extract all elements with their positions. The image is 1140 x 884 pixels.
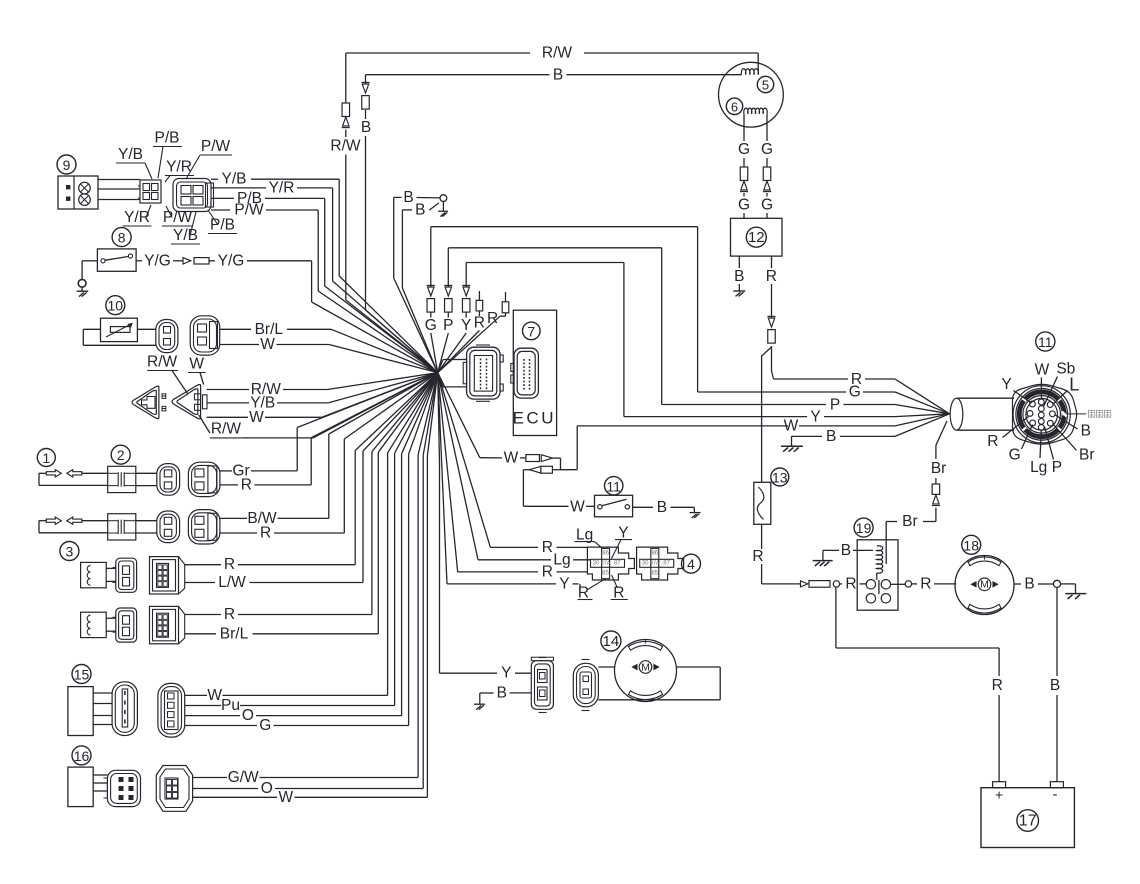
svg-text:Y/R: Y/R [269,179,295,196]
svg-text:G: G [259,717,271,734]
svg-text:W: W [249,409,264,426]
svg-text:15: 15 [74,667,90,683]
svg-text:10: 10 [108,298,124,314]
svg-text:11: 11 [1038,334,1053,350]
svg-text:G/W: G/W [228,769,259,786]
svg-text:Y/B: Y/B [118,146,143,163]
svg-text:O: O [261,780,273,797]
svg-text:Br/L: Br/L [220,625,249,642]
svg-text:Y: Y [1001,376,1011,393]
svg-text:87: 87 [663,560,670,566]
svg-text:8: 8 [118,230,126,246]
svg-text:6: 6 [731,99,738,114]
svg-text:+: + [995,787,1003,803]
svg-text:R: R [766,268,777,285]
svg-text:Y: Y [559,575,569,592]
svg-text:P/B: P/B [155,130,180,147]
svg-text:B: B [553,67,563,84]
svg-text:M: M [641,661,650,673]
svg-text:R: R [542,563,553,580]
svg-text:Y/B: Y/B [222,171,247,188]
svg-text:R/W: R/W [147,353,178,370]
svg-text:16: 16 [74,748,90,764]
svg-text:Y/G: Y/G [218,252,245,269]
svg-text:W: W [570,498,585,515]
svg-text:W: W [504,449,519,466]
svg-text:W: W [784,418,799,435]
svg-text:85: 85 [602,570,609,576]
svg-text:P: P [1052,459,1062,476]
svg-text:G: G [1009,446,1021,463]
svg-text:B: B [1024,576,1034,593]
svg-text:B: B [361,119,371,136]
svg-text:Lg: Lg [576,526,593,543]
svg-text:L/W: L/W [218,574,246,591]
svg-text:86: 86 [602,550,609,556]
svg-text:G: G [761,141,773,158]
svg-text:30: 30 [642,560,649,566]
svg-text:1: 1 [42,450,50,466]
svg-text:R/W: R/W [330,138,361,155]
svg-text:P: P [443,317,453,334]
svg-text:Lg: Lg [1030,459,1047,476]
svg-text:Lg: Lg [553,551,570,568]
svg-text:R: R [260,525,271,542]
svg-text:2: 2 [117,447,125,463]
svg-text:R: R [845,575,856,592]
svg-text:85: 85 [651,570,658,576]
svg-text:R: R [474,314,485,331]
svg-text:Br: Br [1079,446,1095,463]
svg-text:G: G [761,197,773,214]
svg-text:R/W: R/W [211,421,242,438]
svg-text:87: 87 [614,560,621,566]
svg-text:18: 18 [963,537,979,553]
svg-text:Y: Y [810,408,820,425]
svg-text:3: 3 [66,544,74,560]
svg-text:Pu: Pu [221,697,240,714]
svg-text:P/W: P/W [201,138,231,155]
svg-text:9: 9 [63,157,71,173]
svg-text:G: G [738,141,750,158]
svg-text:B: B [497,684,507,701]
svg-text:R: R [578,584,589,601]
svg-text:B: B [734,268,744,285]
svg-text:Y: Y [501,665,511,682]
svg-text:14: 14 [603,633,620,650]
svg-text:P/W: P/W [234,202,264,219]
svg-text:11: 11 [606,478,621,494]
svg-text:R: R [613,584,624,601]
svg-text:B: B [657,499,667,516]
svg-text:R: R [224,556,235,573]
svg-text:R: R [487,310,498,327]
svg-text:R: R [920,575,931,592]
svg-text:B: B [415,202,425,219]
svg-text:W: W [260,336,275,353]
svg-text:Y/R: Y/R [166,159,192,176]
svg-text:G: G [738,197,750,214]
svg-text:B: B [1081,422,1091,439]
svg-text:G: G [849,384,861,401]
svg-text:-: - [1053,786,1058,803]
svg-text:87A: 87A [650,560,660,566]
svg-text:L: L [1069,375,1079,395]
svg-text:B: B [826,428,836,445]
svg-text:ECU: ECU [513,409,556,428]
svg-text:W: W [278,789,293,806]
svg-text:Br: Br [902,513,918,530]
svg-text:M: M [980,579,989,591]
svg-text:R: R [752,548,763,565]
svg-text:Br: Br [931,460,947,477]
svg-text:R: R [542,539,553,556]
svg-text:R/W: R/W [542,45,573,62]
svg-text:12: 12 [748,229,765,246]
svg-text:30: 30 [593,560,600,566]
svg-text:19: 19 [856,520,872,536]
svg-text:4: 4 [687,556,695,572]
svg-text:R: R [987,433,998,450]
svg-text:Y/B: Y/B [173,227,198,244]
svg-text:5: 5 [762,78,769,93]
svg-text:P/W: P/W [163,209,193,226]
svg-text:R: R [992,677,1003,694]
svg-text:B: B [1050,677,1060,694]
svg-text:Y: Y [461,317,471,334]
svg-text:17: 17 [1019,813,1037,830]
svg-text:Y/G: Y/G [144,252,171,269]
svg-text:O: O [242,707,254,724]
svg-text:R: R [241,476,252,493]
svg-text:B: B [403,189,413,206]
svg-text:87A: 87A [601,560,611,566]
svg-text:B: B [841,542,851,559]
svg-text:13: 13 [772,470,788,486]
svg-text:W: W [1035,362,1050,379]
svg-text:Y: Y [618,524,628,541]
svg-text:P: P [830,396,840,413]
svg-text:G: G [425,317,437,334]
svg-text:R: R [224,606,235,623]
svg-text:W: W [189,356,204,373]
svg-text:86: 86 [651,550,658,556]
svg-text:7: 7 [527,323,535,339]
